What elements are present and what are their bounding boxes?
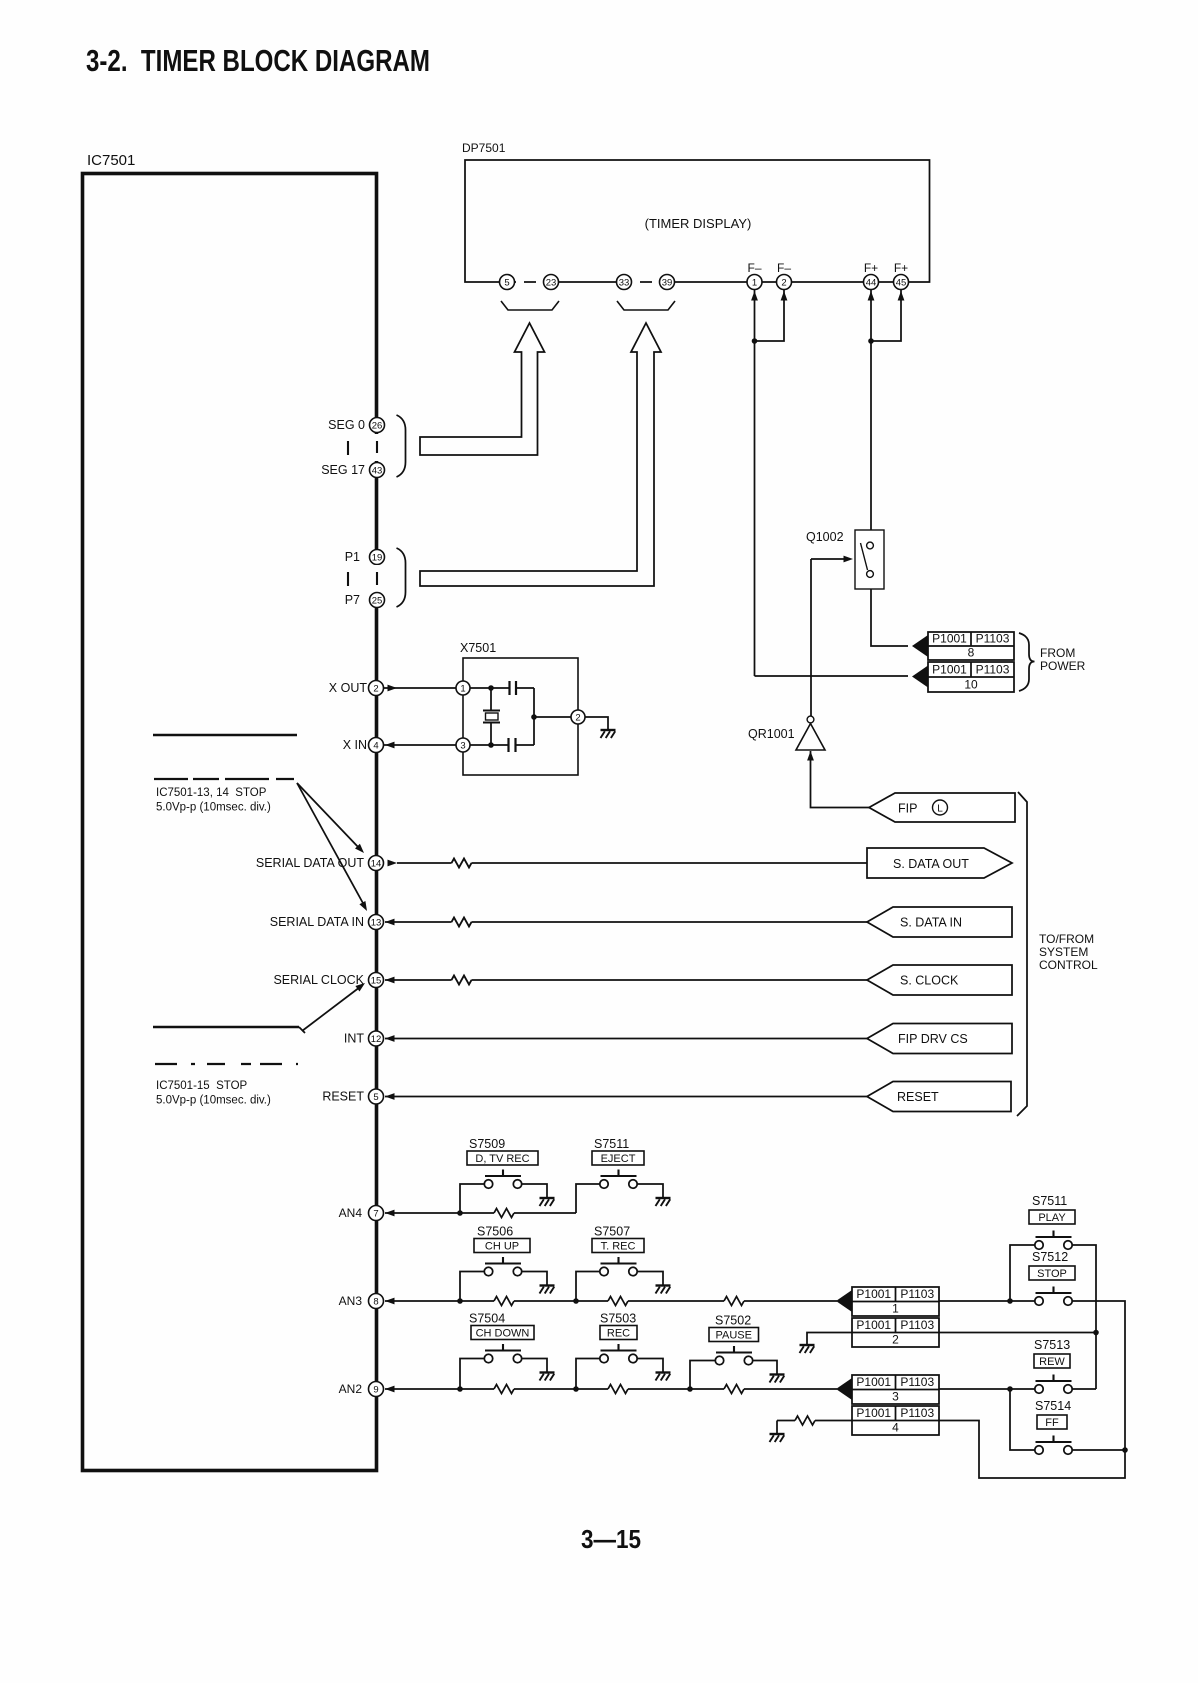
svg-text:43: 43 — [372, 465, 383, 476]
IC7501 pin 12 INT — [344, 1031, 384, 1046]
ground (pin4 row) — [770, 1434, 785, 1442]
svg-text:IC7501-13, 14 STOP: IC7501-13, 14 STOP — [156, 787, 267, 799]
svg-text:33: 33 — [619, 277, 630, 288]
svg-text:4: 4 — [892, 1421, 899, 1435]
wire: RESET line — [385, 1093, 867, 1100]
ground (S7502) — [770, 1375, 785, 1383]
IC7501 pin 19 P1 — [345, 550, 385, 565]
wire: AN4 row — [385, 1210, 576, 1217]
DP7501 pin 2 label F- — [777, 261, 791, 275]
svg-text:5: 5 — [504, 277, 509, 288]
inverter QR1001 — [796, 716, 825, 760]
switch S7514 value box FF — [1037, 1415, 1067, 1429]
svg-text:P1103: P1103 — [900, 1375, 934, 1389]
svg-text:CONTROL: CONTROL — [1039, 958, 1098, 972]
switch S7504 (CH DOWN) — [484, 1344, 521, 1363]
net flag FIP DRV CS — [867, 1024, 1012, 1054]
switch S7502 (PAUSE) — [715, 1346, 752, 1365]
wire: pin3 row to REW — [939, 1386, 1035, 1392]
IC7501 pin 5 RESET — [322, 1089, 383, 1104]
connector P1001/P1103 pin 4 — [852, 1406, 939, 1435]
net flag FIP (L) — [869, 793, 1015, 822]
switch S7511 label — [1032, 1194, 1067, 1208]
wire: S7503 right leg — [637, 1359, 663, 1372]
wire: S7511 left leg — [576, 1184, 600, 1213]
switch S7512 value box STOP — [1029, 1266, 1075, 1280]
svg-text:SEG 17: SEG 17 — [321, 463, 365, 477]
wire: S7511 right leg — [637, 1184, 663, 1197]
DP7501 pin 1 — [747, 275, 762, 290]
svg-text:SERIAL DATA OUT: SERIAL DATA OUT — [256, 856, 364, 870]
wire: SERIAL CLOCK line — [385, 976, 867, 985]
IC7501 pin 25 P7 — [345, 593, 385, 608]
svg-text:7: 7 — [373, 1208, 378, 1219]
switch S7513 label — [1034, 1338, 1070, 1352]
svg-text:P1001: P1001 — [932, 632, 967, 646]
brace under pins 33-39 — [617, 301, 675, 310]
wire: REW left vertical to FF — [1010, 1389, 1035, 1450]
inverter QR1001 label — [748, 727, 795, 741]
X7501 pin 1 — [456, 681, 470, 695]
svg-text:19: 19 — [372, 552, 383, 563]
svg-text:2: 2 — [892, 1333, 899, 1347]
svg-text:14: 14 — [371, 858, 382, 869]
svg-text:CH DOWN: CH DOWN — [476, 1327, 530, 1339]
DP7501 pin 5 — [500, 275, 515, 290]
IC7501 pin 26 SEG 0 — [328, 418, 384, 433]
wire: crystal pin 3 to X IN — [384, 742, 456, 749]
DP7501 pin 44 label F+ — [864, 261, 878, 275]
svg-text:39: 39 — [662, 277, 673, 288]
ground (S7504) — [540, 1373, 555, 1381]
leader arrow to pin 15 — [299, 983, 365, 1033]
wire: AN2 row — [385, 1386, 837, 1393]
svg-text:QR1001: QR1001 — [748, 727, 795, 741]
svg-text:S. DATA IN: S. DATA IN — [900, 916, 962, 930]
wire: S7507 left leg — [576, 1272, 600, 1302]
wire: S7502 left leg — [690, 1361, 715, 1390]
svg-text:AN4: AN4 — [339, 1206, 363, 1220]
brace P group — [397, 548, 406, 607]
wire: REW right to vertical — [1072, 1388, 1096, 1390]
switch S7513 (REW) — [1035, 1375, 1072, 1394]
ground (S7506) — [540, 1286, 555, 1294]
wire: INT line — [385, 1035, 867, 1042]
switch S7504 value box CH DOWN — [471, 1326, 534, 1340]
switch S7503 value box REC — [600, 1326, 637, 1340]
svg-text:3-2. TIMER BLOCK DIAGRAM: 3-2. TIMER BLOCK DIAGRAM — [86, 43, 430, 78]
switch S7507 (T. REC) — [600, 1257, 637, 1276]
IC7501 pin 7 AN4 — [339, 1206, 384, 1221]
wire: pin1 F- down to connector row — [751, 290, 758, 676]
ground (S7503) — [656, 1373, 671, 1381]
svg-text:FIP DRV CS: FIP DRV CS — [898, 1032, 968, 1046]
wire: S7504 left leg — [460, 1359, 484, 1390]
net flag RESET — [867, 1082, 1011, 1112]
wire: PLAY left vertical — [1010, 1245, 1035, 1301]
svg-text:D, TV REC: D, TV REC — [475, 1153, 529, 1165]
svg-text:P1103: P1103 — [900, 1318, 934, 1332]
svg-text:PAUSE: PAUSE — [716, 1329, 752, 1341]
connector P1001/P1103 pin 8 — [912, 632, 1014, 661]
page number 3-15 — [581, 1524, 641, 1554]
wire: S7506 left leg — [460, 1272, 484, 1302]
bus arrow: SEG lines to display — [420, 323, 545, 455]
wire: pin45 F+ joins pin44 line — [871, 290, 904, 341]
svg-text:S. CLOCK: S. CLOCK — [900, 974, 959, 988]
switch S7506 (CH UP) — [484, 1257, 521, 1276]
svg-text:S7512: S7512 — [1032, 1250, 1068, 1264]
svg-text:IC7501-15 STOP: IC7501-15 STOP — [156, 1080, 248, 1092]
wire: F- line to connector 10 — [755, 675, 909, 677]
switch S7511 (EJECT) — [600, 1170, 637, 1189]
IC7501 pin 9 AN2 — [339, 1382, 384, 1397]
svg-text:10: 10 — [964, 678, 978, 692]
DP7501 pin 2 — [777, 275, 792, 290]
wire: DP7501 pin row dashes — [516, 278, 660, 286]
svg-text:P1103: P1103 — [900, 1406, 934, 1420]
svg-text:S7511: S7511 — [594, 1137, 629, 1151]
svg-text:SYSTEM: SYSTEM — [1039, 945, 1088, 959]
svg-text:SEG 0: SEG 0 — [328, 418, 365, 432]
svg-text:L: L — [937, 804, 943, 815]
switch S7502 label — [715, 1314, 751, 1328]
svg-text:F–: F– — [747, 261, 761, 275]
svg-text:F–: F– — [777, 261, 791, 275]
wire: QR1001 out to Q1002 with arrow — [811, 556, 853, 716]
svg-text:CH UP: CH UP — [485, 1240, 519, 1252]
label TO/FROM SYSTEM CONTROL — [1039, 932, 1098, 972]
svg-text:P1001: P1001 — [856, 1375, 891, 1389]
svg-text:S7509: S7509 — [469, 1137, 505, 1151]
connector P1001/P1103 pin 1 — [836, 1287, 939, 1316]
wire: S7506 right leg — [522, 1272, 547, 1285]
X7501 pin 3 — [456, 738, 470, 752]
brace SEG group — [397, 415, 406, 477]
wire: X7501 pin2 to ground — [585, 717, 608, 729]
waveform note IC7501-13,14 — [153, 735, 297, 814]
switch S7511 value box PLAY — [1029, 1210, 1075, 1224]
wire: S7502 right leg — [753, 1361, 777, 1374]
svg-text:15: 15 — [371, 975, 382, 986]
svg-text:S7511: S7511 — [1032, 1194, 1067, 1208]
wire: pin1 row to PLAY/STOP — [939, 1298, 1035, 1304]
net flag S.DATA OUT — [867, 848, 1012, 878]
svg-text:SERIAL DATA IN: SERIAL DATA IN — [270, 915, 364, 929]
continuation dashes SEG — [348, 434, 380, 461]
ground (pin2 row) — [800, 1345, 815, 1353]
brace FROM POWER — [1019, 633, 1035, 691]
wire: SERIAL DATA OUT line — [388, 859, 868, 868]
svg-text:TO/FROM: TO/FROM — [1039, 932, 1094, 946]
svg-text:26: 26 — [372, 420, 383, 431]
switch S7506 label — [477, 1225, 513, 1239]
switch S7507 value box T. REC — [592, 1239, 644, 1253]
DP7501 pin 44 — [864, 275, 879, 290]
IC7501 pin 8 AN3 — [339, 1294, 384, 1309]
svg-text:REC: REC — [607, 1327, 630, 1339]
transistor Q1002 (switch) — [855, 530, 884, 589]
svg-text:S7502: S7502 — [715, 1314, 751, 1328]
crystal X7501 label — [460, 641, 496, 655]
DP7501 pin 39 — [660, 275, 675, 290]
label FROM POWER — [1040, 646, 1086, 673]
svg-text:FF: FF — [1045, 1417, 1059, 1429]
wire: S7507 right leg — [637, 1272, 663, 1285]
resistor on SERIAL CLOCK line — [452, 976, 472, 985]
leader arrow to pin 14 — [297, 783, 364, 853]
svg-text:AN2: AN2 — [339, 1382, 363, 1396]
svg-text:1: 1 — [460, 683, 465, 694]
svg-text:8: 8 — [373, 1296, 378, 1307]
IC7501 pin 43 SEG 17 — [321, 463, 384, 478]
resistor AN2 row 2 — [608, 1385, 628, 1394]
ground (X7501) — [601, 730, 616, 738]
svg-text:3: 3 — [460, 740, 465, 751]
svg-text:INT: INT — [344, 1032, 365, 1046]
wire: caps common to pin 2 — [531, 688, 571, 745]
svg-text:5: 5 — [373, 1092, 378, 1103]
net flag S.CLOCK — [867, 965, 1012, 995]
svg-text:S7507: S7507 — [594, 1225, 630, 1239]
DP7501 pin 45 — [894, 275, 909, 290]
switch S7512 (STOP) — [1035, 1287, 1072, 1306]
svg-text:T. REC: T. REC — [601, 1240, 636, 1252]
IC U1: IC7501 block — [83, 152, 377, 1471]
svg-text:SERIAL CLOCK: SERIAL CLOCK — [273, 973, 364, 987]
svg-text:P1103: P1103 — [976, 663, 1010, 677]
svg-text:P1001: P1001 — [932, 663, 967, 677]
switch S7514 label — [1035, 1399, 1071, 1413]
svg-text:3—15: 3—15 — [581, 1524, 641, 1554]
svg-text:P1103: P1103 — [900, 1287, 934, 1301]
svg-text:P7: P7 — [345, 593, 360, 607]
svg-text:REW: REW — [1039, 1356, 1065, 1368]
switch S7512 label — [1032, 1250, 1068, 1264]
wire: pin2 F- joins pin1 line — [755, 290, 788, 341]
transistor Q1002 label — [806, 530, 844, 544]
wire: pin2 row to ground — [807, 1333, 852, 1345]
svg-text:S7504: S7504 — [469, 1312, 505, 1326]
connector P1001/P1103 pin 2 — [852, 1318, 939, 1347]
svg-text:DP7501: DP7501 — [462, 141, 506, 155]
wire: FIP flag to QR1001 — [811, 751, 870, 808]
resistor AN3 row 3 — [724, 1297, 744, 1306]
wire: pin4 row to resistor and ground — [777, 1421, 852, 1434]
svg-text:12: 12 — [371, 1034, 382, 1045]
resistor AN3 row 2 — [608, 1297, 628, 1306]
IC7501 pin 2 X OUT — [329, 681, 384, 696]
svg-text:2: 2 — [373, 683, 378, 694]
svg-text:P1001: P1001 — [856, 1406, 891, 1420]
DP7501 pin 1 label F- — [747, 261, 761, 275]
svg-text:P1: P1 — [345, 550, 360, 564]
IC7501 pin 4 X IN — [343, 738, 384, 753]
crystal element — [483, 688, 500, 745]
svg-text:2: 2 — [575, 712, 580, 723]
svg-text:X OUT: X OUT — [329, 681, 368, 695]
capacitor C1 (top) — [510, 681, 535, 695]
wire: PLAY right to STOP crossing vertical — [1072, 1245, 1099, 1389]
wire: pin44 F+ down to Q1002 — [868, 290, 875, 530]
switch S7506 value box CH UP — [474, 1239, 530, 1253]
svg-text:AN3: AN3 — [339, 1294, 363, 1308]
resistor AN3 row 1 — [494, 1297, 514, 1306]
brace under pins 5-23 — [501, 301, 559, 310]
wire: FF right to vertical — [1072, 1449, 1125, 1451]
svg-text:9: 9 — [373, 1384, 378, 1395]
display DP7501 block (TIMER DISPLAY) — [462, 141, 930, 282]
wire: AN3 row — [385, 1298, 837, 1305]
svg-text:1: 1 — [752, 277, 757, 288]
wire: S7509 left leg — [460, 1184, 484, 1213]
net flag S.DATA IN — [867, 907, 1012, 937]
svg-text:FROM: FROM — [1040, 646, 1075, 660]
svg-text:S7514: S7514 — [1035, 1399, 1071, 1413]
ground (S7511) — [656, 1198, 671, 1206]
crystal X7501 box — [463, 658, 578, 775]
svg-text:4: 4 — [373, 740, 378, 751]
switch S7513 value box REW — [1034, 1354, 1070, 1368]
svg-text:RESET: RESET — [322, 1090, 364, 1104]
svg-text:3: 3 — [892, 1390, 899, 1404]
bus arrow: P lines to display — [420, 323, 661, 586]
svg-text:45: 45 — [896, 277, 907, 288]
svg-text:13: 13 — [371, 917, 382, 928]
resistor on SERIAL DATA OUT line — [452, 859, 472, 868]
waveform note IC7501-15 — [153, 1027, 299, 1107]
connector P1001/P1103 pin 3 — [836, 1375, 939, 1404]
svg-text:RESET: RESET — [897, 1090, 939, 1104]
svg-text:2: 2 — [781, 277, 786, 288]
resistor AN2 row 1 — [494, 1385, 514, 1394]
switch S7511 value box EJECT — [592, 1151, 644, 1165]
svg-text:5.0Vp-p (10msec. div.): 5.0Vp-p (10msec. div.) — [156, 1095, 271, 1107]
svg-text:STOP: STOP — [1037, 1268, 1067, 1280]
DP7501 pin 33 — [617, 275, 632, 290]
X7501 pin 2 — [571, 710, 585, 724]
continuation dashes P — [348, 565, 380, 592]
ground (S7509) — [540, 1198, 555, 1206]
svg-text:1: 1 — [892, 1302, 899, 1316]
DP7501 pin 23 — [544, 275, 559, 290]
switch S7511 label — [594, 1137, 629, 1151]
connector P1001/P1103 pin 10 — [912, 662, 1014, 692]
resistor AN4 row — [494, 1209, 514, 1218]
svg-text:FIP: FIP — [898, 802, 917, 816]
switch S7509 value box D, TV REC — [467, 1151, 538, 1165]
wire: SERIAL DATA IN line — [385, 918, 867, 927]
svg-text:8: 8 — [968, 646, 975, 660]
svg-text:44: 44 — [866, 277, 877, 288]
svg-text:P1103: P1103 — [976, 632, 1010, 646]
resistor AN2 row 3 — [724, 1385, 744, 1394]
svg-text:5.0Vp-p (10msec. div.): 5.0Vp-p (10msec. div.) — [156, 802, 271, 814]
switch S7504 label — [469, 1312, 505, 1326]
switch S7502 value box PAUSE — [709, 1328, 759, 1342]
title: 3-2. TIMER BLOCK DIAGRAM — [86, 43, 430, 78]
svg-text:P1001: P1001 — [856, 1287, 891, 1301]
resistor (pin4 row) — [795, 1416, 815, 1425]
wire: pin1 to cap C1 — [470, 685, 509, 691]
svg-text:S7513: S7513 — [1034, 1338, 1070, 1352]
svg-text:23: 23 — [546, 277, 557, 288]
svg-text:X IN: X IN — [343, 738, 367, 752]
svg-text:S. DATA OUT: S. DATA OUT — [893, 857, 969, 871]
IC7501 pin 15 SERIAL CLOCK — [273, 973, 383, 988]
svg-text:F+: F+ — [894, 261, 908, 275]
switch S7511 (PLAY) — [1035, 1231, 1072, 1250]
wire: X OUT to crystal pin 1 — [384, 685, 456, 692]
svg-text:X7501: X7501 — [460, 641, 496, 655]
svg-text:P1001: P1001 — [856, 1318, 891, 1332]
IC7501 pin 14 SERIAL DATA OUT — [256, 856, 384, 871]
wire: S7509 right leg — [522, 1184, 547, 1197]
svg-text:S7506: S7506 — [477, 1225, 513, 1239]
svg-text:IC7501: IC7501 — [87, 152, 135, 169]
switch S7514 (FF) — [1035, 1436, 1072, 1455]
switch S7503 label — [600, 1312, 636, 1326]
svg-text:(TIMER DISPLAY): (TIMER DISPLAY) — [645, 216, 752, 231]
svg-text:PLAY: PLAY — [1038, 1212, 1066, 1224]
svg-text:Q1002: Q1002 — [806, 530, 844, 544]
svg-text:POWER: POWER — [1040, 659, 1086, 673]
wire: Q1002 to connector 8 — [871, 589, 908, 646]
wire: S7504 right leg — [522, 1359, 547, 1372]
leader arrow to pin 13 — [297, 783, 367, 911]
wire: S7503 left leg — [576, 1359, 600, 1390]
svg-text:F+: F+ — [864, 261, 878, 275]
ground (S7507) — [656, 1286, 671, 1294]
wire: pin2 row to STOP vertical — [939, 1332, 1096, 1334]
DP7501 pin 45 label F+ — [894, 261, 908, 275]
svg-text:EJECT: EJECT — [601, 1153, 636, 1165]
switch S7507 label — [594, 1225, 630, 1239]
wire: pin3 to cap C2 — [470, 742, 509, 748]
IC7501 pin 13 SERIAL DATA IN — [270, 915, 384, 930]
resistor on SERIAL DATA IN line — [452, 918, 472, 927]
capacitor C2 (bottom) — [509, 738, 535, 752]
switch S7509 (D, TV REC) — [484, 1170, 521, 1189]
switch S7503 (REC) — [600, 1344, 637, 1363]
wire: STOP right vertical — [939, 1301, 1128, 1478]
bracket TO/FROM SYSTEM CONTROL — [1017, 792, 1027, 1116]
switch S7509 label — [469, 1137, 505, 1151]
svg-text:S7503: S7503 — [600, 1312, 636, 1326]
svg-text:25: 25 — [372, 595, 383, 606]
